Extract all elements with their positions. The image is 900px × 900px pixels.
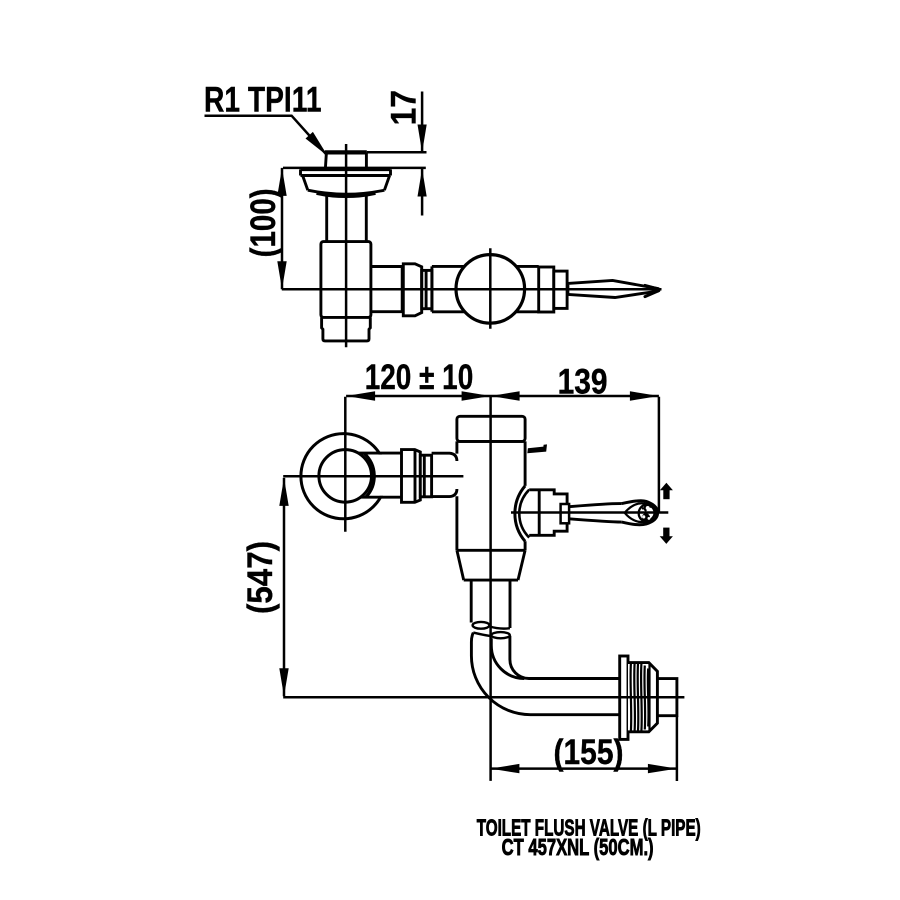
vertical centerline through ball (489, 248, 492, 329)
svg-text:(100): (100) (244, 188, 283, 257)
ring A right of ball (539, 267, 554, 312)
17 dim line (421, 92, 424, 216)
inlet nut (side view) (325, 152, 367, 168)
down arrow (660, 536, 673, 544)
17 extension line at nut top (367, 151, 427, 154)
svg-text:17: 17 (384, 90, 424, 125)
svg-text:120 ± 10: 120 ± 10 (365, 357, 474, 397)
threaded fitting (628, 663, 657, 732)
svg-text:139: 139 (558, 362, 608, 402)
svg-text:(547): (547) (241, 541, 280, 614)
water inlet mark on body (527, 444, 547, 453)
handle hex socket (529, 490, 567, 536)
139 right extension line (658, 397, 661, 513)
wall flange (side view) (301, 169, 391, 196)
wall plate flange at pipe end (620, 656, 628, 739)
svg-text:R1 TPI11: R1 TPI11 (204, 80, 322, 120)
outlet pipe from body (side view) (371, 267, 402, 312)
pipe end right of threads (657, 679, 677, 716)
139 dim arrows (491, 391, 520, 400)
top cap (front view) (457, 416, 525, 441)
lever blade (side view) (568, 280, 659, 297)
vertical centerline through flange (345, 144, 348, 347)
collar ring (front view) (420, 455, 431, 497)
vertical pipe below flange (327, 195, 367, 241)
dimensions of top view (282, 92, 427, 290)
flange horizontal centerline (283, 475, 463, 478)
(155) right extension (676, 716, 679, 781)
flange vertical centerline (344, 397, 347, 532)
centerlines of top view (282, 144, 662, 347)
(547) dim arrows (279, 478, 288, 506)
lever knob teardrop (622, 501, 658, 525)
packing dome crescent on body right (515, 486, 525, 541)
main vertical centerline (489, 397, 492, 781)
(155) dim arrows (490, 764, 519, 773)
wall flange outer circle (301, 434, 386, 519)
body outline (front view) (457, 441, 525, 550)
leader R1 TPI11 (205, 116, 328, 156)
elbow pipe (471, 633, 619, 715)
wall flange inner circle (319, 450, 372, 503)
upper pipe below cone (471, 580, 510, 628)
pipe between flange and nut (covers outer circle) (358, 455, 402, 496)
ball valve sphere (456, 255, 525, 324)
union slip joint ellipses (473, 622, 510, 638)
ring B right of ball (554, 271, 567, 308)
horizontal centerline top view (282, 288, 662, 291)
coupling nut (front view) (402, 450, 421, 503)
svg-text:(155): (155) (554, 733, 624, 772)
valve body (side view) (321, 242, 371, 318)
body bottom cap (side view) (322, 317, 371, 341)
flange top extension line (283, 167, 426, 170)
inlet stub into body (432, 453, 457, 496)
handle horizontal centerline (511, 511, 668, 514)
(155) dim line (490, 767, 677, 770)
socket arc right of inner circle (364, 453, 374, 497)
centerlines of front view (283, 397, 684, 781)
lever arm (front view) (569, 504, 622, 523)
outlet pipe horizontal centerline (283, 696, 684, 699)
120 dim arrows (346, 391, 375, 400)
lever ferrule (561, 504, 570, 523)
dimensions of front view (284, 396, 677, 781)
(100) dim line (281, 168, 284, 289)
lever motion arrows (660, 483, 673, 544)
coupling nut on outlet (side view) (403, 264, 421, 316)
(100) dim arrows (277, 168, 286, 196)
neck between couplings (side view) (422, 270, 432, 308)
up arrow (660, 483, 673, 491)
knob swirl dark blob (642, 513, 650, 521)
horizontal pipe to ball (side view) (432, 266, 539, 311)
(547) dim line (283, 478, 286, 696)
120/139 dim line (346, 395, 659, 398)
17 dim arrows (418, 125, 427, 153)
bottom cone of body (457, 550, 525, 580)
svg-text:CT 457XNL (50CM.): CT 457XNL (50CM.) (502, 834, 654, 860)
